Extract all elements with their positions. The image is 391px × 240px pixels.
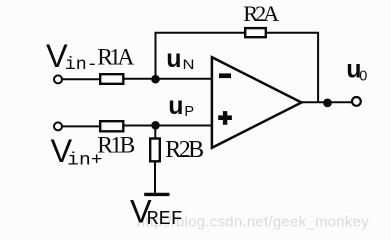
svg-text:in-: in- xyxy=(65,55,98,75)
svg-text:u: u xyxy=(168,92,183,120)
svg-text:P: P xyxy=(184,104,194,120)
svg-text:R1B: R1B xyxy=(97,132,135,158)
svg-text:R2B: R2B xyxy=(165,137,204,163)
svg-text:R2A: R2A xyxy=(243,1,280,26)
svg-text:N: N xyxy=(183,56,195,72)
svg-text:R1A: R1A xyxy=(97,45,134,71)
svg-text:REF: REF xyxy=(147,208,183,230)
svg-text:0: 0 xyxy=(359,68,367,84)
svg-text:u: u xyxy=(166,45,181,73)
